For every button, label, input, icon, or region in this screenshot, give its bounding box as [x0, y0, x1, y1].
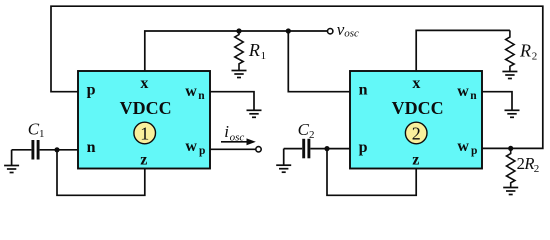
node: junction dot 2R2 tap	[508, 146, 513, 151]
svg-text:w: w	[185, 83, 197, 100]
arrow: i_osc direction	[221, 141, 248, 143]
svg-text:1: 1	[261, 50, 267, 62]
svg-text:osc: osc	[344, 27, 359, 39]
terminal v_osc (open circle)	[328, 29, 333, 34]
ground (w_n1)	[247, 110, 262, 117]
op-amp block VDCC U2	[350, 71, 482, 169]
svg-text:VDCC: VDCC	[120, 98, 172, 118]
svg-text:w: w	[185, 138, 197, 155]
capacitor C1	[33, 140, 38, 160]
resistor R2	[506, 30, 514, 71]
wire: w_n1 right and down to ground	[210, 92, 254, 110]
ground (C2)	[283, 149, 285, 165]
svg-text:x: x	[140, 75, 148, 92]
svg-text:w: w	[457, 138, 469, 155]
svg-text:p: p	[359, 139, 368, 156]
svg-text:p: p	[199, 145, 205, 157]
svg-text:R: R	[519, 40, 531, 60]
resistor R1	[235, 31, 243, 70]
svg-text:z: z	[412, 151, 419, 168]
svg-text:2: 2	[534, 163, 540, 175]
svg-text:C: C	[28, 119, 40, 138]
svg-text:p: p	[471, 145, 477, 157]
wire: w_n2 right and down to ground	[482, 92, 512, 110]
wire: w_p1 to i_osc terminal	[210, 148, 256, 150]
svg-text:x: x	[412, 75, 420, 92]
node: junction dot at R1 tap	[236, 28, 241, 33]
wire: feedback loop w_p2 to p1 (top)	[51, 6, 543, 148]
wire: ground to C2	[284, 148, 303, 150]
svg-text:w: w	[457, 83, 469, 100]
ground (R1)	[232, 71, 247, 78]
svg-text:2: 2	[412, 124, 421, 144]
wire: C1 to n1	[40, 149, 78, 151]
op-amp block VDCC U1	[78, 71, 210, 169]
wire: junction down and around to z1	[57, 150, 145, 196]
capacitor C2	[304, 139, 309, 159]
svg-text:z: z	[140, 151, 147, 168]
resistor 2R2	[507, 148, 515, 187]
svg-text:R: R	[248, 40, 260, 60]
svg-text:VDCC: VDCC	[392, 98, 444, 118]
svg-text:1: 1	[39, 128, 45, 140]
node: junction dot at n2 branch	[286, 28, 291, 33]
wire: ground to C1	[12, 149, 32, 151]
ground (w_n2)	[505, 110, 520, 117]
svg-text:1: 1	[140, 124, 149, 144]
svg-text:C: C	[298, 120, 310, 139]
svg-text:n: n	[87, 139, 96, 156]
designator circle 2 (U2)	[405, 122, 427, 144]
svg-text:n: n	[198, 90, 205, 102]
svg-text:2: 2	[532, 51, 538, 63]
svg-text:n: n	[359, 81, 368, 98]
node: junction dot C1/z1	[54, 147, 59, 152]
wire: junction down to n pin of VDCC2	[288, 31, 350, 92]
wire: junction down and around to z2	[327, 149, 416, 196]
ground (2R2)	[503, 188, 518, 195]
svg-text:p: p	[87, 81, 96, 98]
svg-text:2: 2	[309, 129, 315, 141]
wire: C2 to p2	[310, 148, 350, 150]
node: junction dot C2/z2	[324, 146, 329, 151]
svg-text:i: i	[224, 122, 229, 141]
svg-text:n: n	[470, 90, 477, 102]
wire: x2 up and right to R2	[416, 30, 510, 71]
wire: x1 up and right to v_osc terminal	[145, 31, 328, 71]
ground (R2)	[502, 72, 517, 79]
designator circle 1 (U1)	[134, 122, 156, 144]
ground (C1)	[11, 150, 13, 165]
terminal i_osc (open circle)	[256, 147, 261, 152]
